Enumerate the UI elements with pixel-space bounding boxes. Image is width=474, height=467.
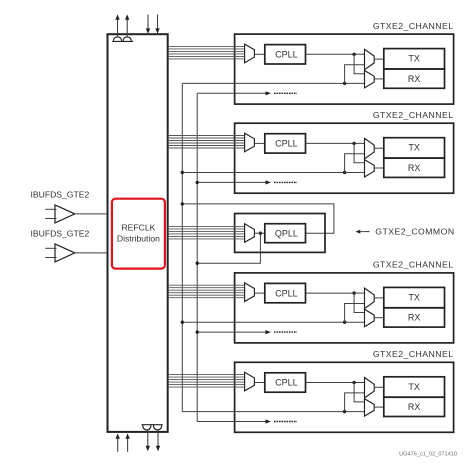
northbound clock input arrow W_NB2 [125,433,129,451]
wire QPLL refclk into channel 1 (dashed continuation) [197,91,297,95]
northbound clock arrow W_N2 [125,14,129,37]
junction node QPLL clock split channel 2 [343,171,346,174]
label GTXE2_CHANNEL 2 [373,110,454,120]
svg-text:CPLL: CPLL [275,288,298,298]
RX block channel 1 [384,69,445,88]
svg-text:TX: TX [408,54,420,64]
svg-text:IBUFDS_GTE2: IBUFDS_GTE2 [31,189,90,199]
TX clock mux channel 1 [365,49,384,69]
svg-text:IBUFDS_GTE2: IBUFDS_GTE2 [31,228,90,238]
wire QPLLOUTCLK into channel 4 [182,411,364,413]
input buffer IBUFDS_GTE2 U_IB1 [45,205,75,223]
svg-text:RX: RX [408,74,421,84]
wire QPLLOUTREFCLK vertical net B [196,93,198,421]
southbound clock input arrow W_S2 [155,15,159,34]
TX block channel 3 [384,287,445,307]
northbound clock input arrow W_NB1 [116,433,120,451]
wire QPLL clock to TX mux channel 3 [345,304,365,323]
svg-text:CPLL: CPLL [275,139,298,149]
RX block channel 4 [384,397,445,416]
wire QPLL clock to TX mux channel 4 [345,393,365,412]
wire QPLL clock to TX mux channel 2 [345,154,365,173]
label GTXE2_CHANNEL 4 [373,349,454,359]
svg-text:RX: RX [408,313,421,323]
TX clock mux channel 2 [365,138,384,158]
svg-text:CPLL: CPLL [275,50,298,60]
refclk mux common [245,224,265,243]
highlight box REFCLK Distribution [112,199,165,269]
svg-text:QPLL: QPLL [275,228,298,238]
wire QPLL output loop [182,204,334,233]
wire CPLL3 output [306,292,365,294]
QPLL U_QPLL [265,224,306,243]
wire CPLL4 to RX mux [354,383,364,402]
svg-text:REFCLK: REFCLK [121,223,155,233]
TX block channel 2 [384,138,445,158]
svg-text:CPLL: CPLL [275,378,298,388]
refclk mux channel 3 [245,283,265,302]
RX block channel 3 [384,308,445,327]
TX block channel 4 [384,377,445,397]
svg-text:GTXE2_CHANNEL: GTXE2_CHANNEL [373,110,454,120]
wire IBUFDS output 1 to column [75,213,108,215]
southbound clock input arrow W_S1 [146,15,150,34]
wire CPLL1 output [306,53,365,55]
svg-text:RX: RX [408,402,421,412]
refclk bus into common [168,226,245,239]
wire CPLL1 to RX mux [354,54,364,73]
junction node net A branch channel 2 [181,171,184,174]
wire CPLL2 to RX mux [354,143,364,162]
wire QPLL refclk into channel 2 (dashed continuation) [197,180,297,184]
wire QPLLOUTCLK into channel 1 [182,82,364,84]
wire QPLL clock to TX mux channel 1 [345,65,365,84]
north clock buffer B_N1 [113,37,121,42]
refclk bus into channel 1 [168,46,245,59]
CPLL U_CPLL1 [265,45,306,64]
label GTXE2_COMMON pointer [356,227,455,237]
svg-text:RX: RX [408,163,421,173]
RX clock mux channel 1 [365,71,384,88]
south clock buffer B_S2 [153,425,161,430]
wire CPLL4 output [306,382,365,384]
wire QPLLOUTCLK into channel 3 [182,321,364,323]
north clock buffer base line [112,40,133,42]
GTXE2_CHANNEL box CH3 [235,273,454,343]
CPLL U_CPLL4 [265,373,306,392]
south clock buffer base line [142,424,163,426]
north clock buffer B_N2 [123,37,131,42]
label IBUFDS_GTE2 #1 [31,189,90,199]
GTXE2_CHANNEL box CH1 [235,34,454,104]
wire QPLLOUTCLK into channel 2 [182,172,364,174]
CPLL U_CPLL2 [265,134,306,153]
refclk bus into channel 3 [168,285,245,298]
RX clock mux channel 2 [365,160,384,177]
svg-text:TX: TX [408,292,420,302]
junction node CPLL4 output split [352,381,355,384]
refclk bus into channel 2 [168,136,245,149]
wire QPLL refclk into channel 4 (dashed continuation) [197,419,297,423]
wire QPLL refclk into channel 3 (dashed continuation) [197,330,297,334]
southbound clock output arrow W_SB2 [156,430,160,451]
wire IBUFDS output 2 to column [75,252,108,254]
junction node QPLL clock split channel 4 [343,410,346,413]
junction node net B branch channel 2 [196,181,199,184]
GTXE2_CHANNEL box CH2 [235,123,454,193]
GTXE2_COMMON box [235,214,325,253]
input buffer IBUFDS_GTE2 U_IB2 [45,244,75,262]
svg-text:GTXE2_CHANNEL: GTXE2_CHANNEL [373,21,454,31]
junction node CPLL2 output split [352,142,355,145]
wire CPLL3 to RX mux [354,293,364,312]
junction node QPLL output to net A [181,202,184,205]
refclk bus into channel 4 [168,375,245,388]
REFCLK distribution column U_COL [108,34,168,432]
GTXE2_CHANNEL box CH4 [235,362,454,432]
wire CPLL2 output [306,142,365,144]
TX block channel 1 [384,49,445,69]
wire QPLLOUTCLK vertical net A [181,83,183,411]
RX block channel 2 [384,158,445,177]
svg-text:GTXE2_COMMON: GTXE2_COMMON [375,227,454,237]
svg-text:GTXE2_CHANNEL: GTXE2_CHANNEL [373,260,454,270]
refclk mux channel 4 [245,372,265,391]
label IBUFDS_GTE2 #2 [31,228,90,238]
junction node net A branch channel 3 [181,321,184,324]
junction node QPLL clock split channel 3 [343,321,346,324]
svg-text:UG476_c1_02_071410: UG476_c1_02_071410 [399,452,457,458]
TX clock mux channel 4 [365,378,384,398]
junction node tap to net B [196,262,199,265]
svg-text:GTXE2_CHANNEL: GTXE2_CHANNEL [373,349,454,359]
wire QPLL refclk tap [197,233,260,263]
northbound clock arrow W_N1 [115,14,119,37]
svg-text:Distribution: Distribution [117,233,160,243]
junction node QPLL clock split channel 1 [343,82,346,85]
junction node tap on QPLL input [259,232,262,235]
label GTXE2_CHANNEL 3 [373,260,454,270]
southbound clock output arrow W_SB1 [146,430,150,451]
label GTXE2_CHANNEL 1 [373,21,454,31]
figure reference UG476_c1_02_071410 [399,452,457,458]
junction node CPLL1 output split [352,53,355,56]
refclk mux channel 1 [245,44,265,63]
TX clock mux channel 3 [365,288,384,308]
refclk mux channel 2 [245,133,265,152]
RX clock mux channel 4 [365,399,384,416]
RX clock mux channel 3 [365,309,384,326]
junction node net B branch channel 3 [196,330,199,333]
CPLL U_CPLL3 [265,283,306,302]
svg-text:TX: TX [408,143,420,153]
south clock buffer B_S1 [143,425,151,430]
junction node CPLL3 output split [352,291,355,294]
svg-text:TX: TX [408,382,420,392]
